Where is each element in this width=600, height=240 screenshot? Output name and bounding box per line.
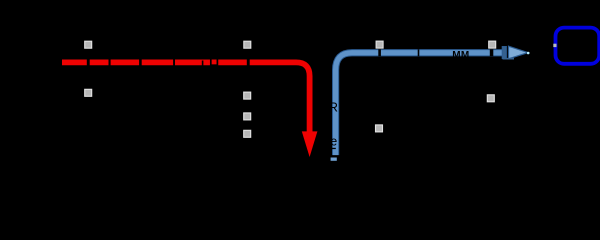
handle square H6 <box>244 92 251 99</box>
black gap near bottom of blue vertical <box>331 155 340 157</box>
handle square H10 <box>487 95 494 102</box>
handle square H3 <box>376 41 383 48</box>
tick B1 on blue line <box>378 49 381 56</box>
handle square H5 <box>85 89 92 96</box>
tick T4 on red line <box>173 59 175 67</box>
blue rounded rectangle terminator <box>556 28 600 64</box>
blue arrow crossbar <box>502 46 506 58</box>
blue connector bottom stub <box>331 158 337 161</box>
handle square H8 <box>244 130 251 137</box>
handle square H4 <box>489 41 496 48</box>
light notch on rounded rect left border <box>553 44 556 47</box>
red timeline line with corner, turning down <box>62 62 310 131</box>
arrow lower tail line <box>503 58 515 60</box>
tick T1 on red line <box>87 59 90 67</box>
tick T6 on red line <box>247 59 250 67</box>
svg-text:MM: MM <box>452 50 469 61</box>
black dash over blue vertical line <box>332 148 336 149</box>
tick T3 (wide) on red line <box>139 59 142 67</box>
tick B2 on blue line <box>418 49 420 56</box>
blue connector fill (light core) <box>336 53 502 155</box>
handle square H2 <box>244 41 251 48</box>
small black box marker on red line <box>211 57 218 65</box>
blue connector outline (dark border) <box>336 53 502 155</box>
svg-text:R: R <box>329 100 338 115</box>
tick T5 on red line <box>202 61 204 67</box>
handle square H9 <box>376 125 383 132</box>
handle square H7 <box>244 113 251 120</box>
arrow tip highlight <box>527 52 530 55</box>
tick B3 on blue line <box>490 49 494 56</box>
svg-text:e: e <box>330 135 337 149</box>
red arrowhead (down) <box>302 131 318 157</box>
handle square H1 <box>85 41 92 48</box>
blue arrowhead (right) <box>509 46 529 59</box>
tick T2 on red line <box>109 59 111 67</box>
